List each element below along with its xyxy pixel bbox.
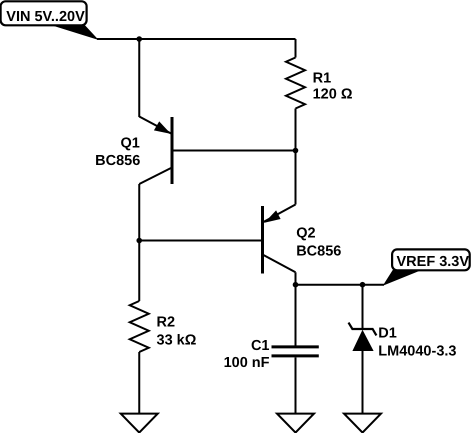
svg-text:Q1: Q1	[120, 136, 139, 152]
wire output rail to VREF flag	[296, 284, 385, 286]
net flag VIN 5V..20V	[1, 1, 97, 39]
wire junction down to Q2 emitter	[295, 151, 297, 205]
svg-text:LM4040-3.3: LM4040-3.3	[378, 343, 456, 359]
svg-text:VREF 3.3V: VREF 3.3V	[397, 254, 470, 270]
ground symbol (C1 branch)	[277, 414, 314, 433]
net flag VREF 3.3V	[384, 249, 470, 284]
svg-text:R1: R1	[313, 70, 332, 86]
node junction Q1 collector / Q2 base / R2	[136, 238, 142, 244]
node junction Q2 collector / C1 / output rail	[293, 282, 299, 288]
diode D1 zener LM4040-3.3	[349, 285, 377, 414]
ground symbol (R2 branch)	[121, 414, 158, 433]
resistor R2	[130, 241, 149, 414]
svg-text:C1: C1	[251, 338, 270, 354]
wire Q2 collector down to output node	[295, 272, 297, 284]
svg-text:Q2: Q2	[296, 226, 315, 242]
svg-text:BC856: BC856	[95, 153, 140, 169]
transistor Q2	[263, 205, 296, 274]
svg-text:120 Ω: 120 Ω	[313, 86, 353, 102]
wire top rail VIN to R1	[97, 38, 296, 40]
wire Q1 base to R1 junction	[172, 150, 296, 152]
svg-text:VIN 5V..20V: VIN 5V..20V	[6, 9, 85, 25]
node junction R1 / Q1 base / Q2 emitter	[293, 148, 299, 154]
resistor R1	[286, 39, 305, 151]
transistor Q1	[139, 117, 172, 185]
svg-text:100 nF: 100 nF	[224, 355, 270, 371]
capacitor C1	[272, 285, 319, 414]
node junction D1 / output rail	[360, 282, 366, 288]
wire Q1 collector down to node	[138, 184, 140, 241]
ground symbol (D1 branch)	[344, 414, 381, 433]
svg-text:D1: D1	[378, 326, 397, 342]
wire Q1 emitter lead	[138, 39, 140, 117]
node junction top rail / Q1 emitter	[136, 36, 142, 42]
wire Q2 base	[139, 240, 262, 242]
svg-text:BC856: BC856	[296, 243, 341, 259]
svg-text:33 kΩ: 33 kΩ	[157, 333, 197, 349]
svg-text:R2: R2	[157, 315, 176, 331]
